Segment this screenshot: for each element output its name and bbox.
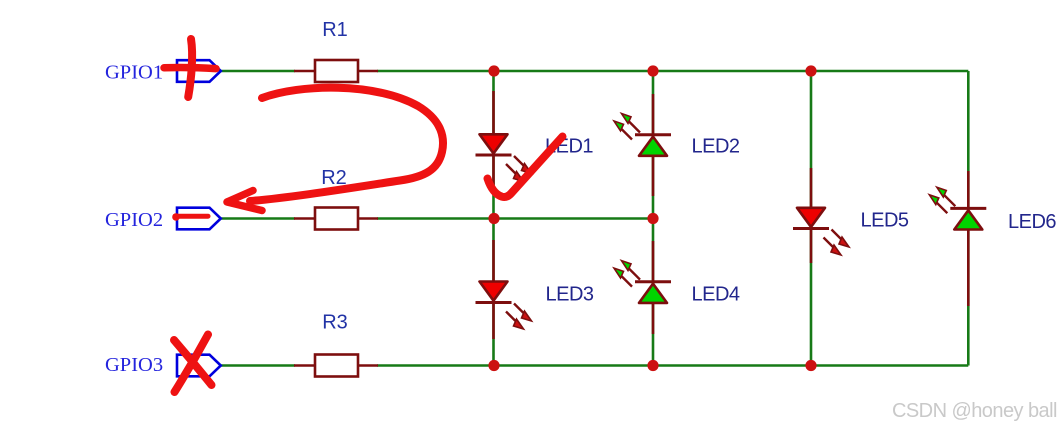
svg-text:GPIO3: GPIO3 xyxy=(105,354,163,376)
junction node row3-col3 xyxy=(805,360,816,371)
svg-text:LED3: LED3 xyxy=(546,284,594,306)
resistor R3 xyxy=(294,355,378,377)
wire column LED2-LED4 xyxy=(652,71,655,366)
junction node row1-col3 xyxy=(805,65,816,76)
svg-text:LED6: LED6 xyxy=(1008,211,1056,233)
junction node row1-col2 xyxy=(647,65,658,76)
svg-text:R3: R3 xyxy=(322,312,348,334)
junction node row2-col1 xyxy=(488,213,499,224)
svg-text:GPIO1: GPIO1 xyxy=(105,62,163,84)
svg-text:GPIO2: GPIO2 xyxy=(105,209,163,231)
port GPIO1 xyxy=(177,60,221,82)
LED1 red diode xyxy=(476,91,532,192)
annotation red cross on GPIO1 xyxy=(164,39,216,97)
svg-text:LED2: LED2 xyxy=(692,136,740,158)
svg-text:LED4: LED4 xyxy=(692,284,740,306)
LED5 red diode xyxy=(793,168,849,263)
svg-text:LED5: LED5 xyxy=(861,210,909,232)
svg-text:R1: R1 xyxy=(322,19,348,41)
LED6 green diode xyxy=(929,171,986,306)
resistor R1 xyxy=(294,60,378,82)
LED3 red diode xyxy=(476,240,532,339)
junction node row2-col2 xyxy=(647,213,658,224)
wire column LED6 right rail xyxy=(967,71,970,366)
LED4 green diode xyxy=(614,241,671,334)
wire row3 R3-to-right-rail xyxy=(377,364,968,367)
port GPIO3 xyxy=(177,355,221,377)
annotation red check mark near LED1 xyxy=(488,137,563,198)
LED2 green diode xyxy=(614,94,671,196)
junction node row3-col1 xyxy=(488,360,499,371)
resistor R2 xyxy=(294,208,378,230)
annotation red dash on GPIO2 xyxy=(172,213,208,221)
wire row2 R2-to-nodeD xyxy=(377,217,653,220)
wire column LED5 xyxy=(810,71,813,366)
wire row2 GPIO2-to-R2 xyxy=(220,217,295,220)
wire column LED1-LED3 xyxy=(492,71,495,366)
wire row1 GPIO1-to-R1 xyxy=(220,70,295,73)
junction node row3-col2 xyxy=(647,360,658,371)
svg-text:CSDN @honey ball: CSDN @honey ball xyxy=(892,400,1057,422)
wire row1 R1-to-right-rail xyxy=(377,70,968,73)
junction node row1-col1 xyxy=(488,65,499,76)
annotation red curved arrow to GPIO2 xyxy=(227,88,443,211)
port GPIO2 xyxy=(177,208,221,230)
annotation red X on GPIO3 xyxy=(174,335,212,393)
wire row3 GPIO3-to-R3 xyxy=(220,364,295,367)
